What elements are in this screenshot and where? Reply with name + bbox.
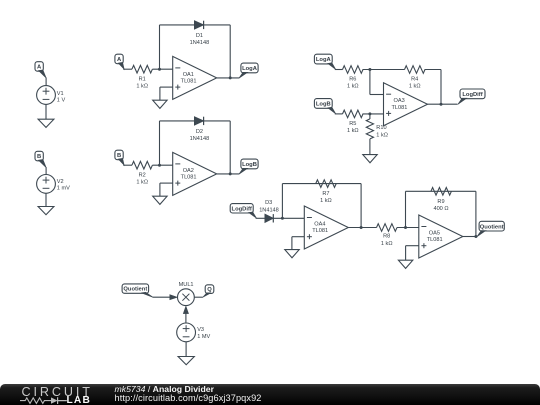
resistor R4 bbox=[405, 66, 426, 74]
svg-text:V2: V2 bbox=[57, 179, 64, 185]
junction bbox=[368, 112, 371, 115]
resistor R1 bbox=[132, 65, 153, 73]
svg-text:R7: R7 bbox=[322, 191, 329, 197]
wire (feedback up) bbox=[159, 121, 161, 165]
resistor R9 bbox=[431, 188, 452, 196]
svg-text:Quotient: Quotient bbox=[123, 287, 147, 293]
resistor R2 bbox=[132, 161, 153, 169]
label MUL1 bbox=[179, 282, 194, 288]
svg-text:OA1: OA1 bbox=[183, 72, 194, 78]
net flag Quotient (input) bbox=[122, 284, 153, 297]
node flag A (source V1) bbox=[35, 62, 46, 78]
svg-text:1 kΩ: 1 kΩ bbox=[347, 84, 359, 90]
svg-text:1 mV: 1 mV bbox=[57, 186, 70, 192]
wire bbox=[152, 68, 172, 70]
voltage source V3 bbox=[177, 323, 196, 342]
wire (feedback top) bbox=[406, 190, 476, 192]
wire (output) bbox=[194, 296, 203, 298]
svg-text:Q: Q bbox=[207, 287, 212, 293]
label D1 bbox=[190, 33, 210, 46]
svg-text:R8: R8 bbox=[383, 234, 390, 240]
voltage source V1 bbox=[37, 86, 56, 105]
svg-text:1 kΩ: 1 kΩ bbox=[320, 198, 332, 204]
svg-text:1 kΩ: 1 kΩ bbox=[136, 179, 148, 185]
wire (+ input) bbox=[160, 183, 173, 196]
svg-text:LogB: LogB bbox=[316, 102, 331, 108]
resistor R10 bbox=[366, 119, 373, 139]
wire (output) bbox=[348, 227, 376, 229]
wire with arrow (X input) bbox=[153, 295, 178, 300]
junction bbox=[440, 103, 443, 106]
wire (feedback up) bbox=[405, 191, 407, 227]
wire bbox=[185, 342, 187, 357]
label V3 value bbox=[197, 327, 210, 340]
svg-text:400 Ω: 400 Ω bbox=[433, 206, 448, 212]
op-amp OA1 bbox=[173, 56, 217, 99]
svg-text:R4: R4 bbox=[411, 77, 418, 83]
svg-text:1 kΩ: 1 kΩ bbox=[376, 133, 388, 139]
wire (- input) bbox=[370, 70, 384, 95]
wire (feedback down) bbox=[475, 191, 477, 236]
label R8 bbox=[381, 234, 393, 248]
svg-text:1 kΩ: 1 kΩ bbox=[381, 241, 393, 247]
svg-text:R2: R2 bbox=[139, 172, 146, 178]
wire bbox=[256, 217, 265, 219]
svg-text:TL081: TL081 bbox=[391, 105, 407, 111]
logo squiggle (resistor + diode) bbox=[19, 396, 71, 405]
svg-text:D1: D1 bbox=[196, 33, 203, 39]
wire (output) bbox=[217, 173, 240, 175]
ground bbox=[398, 260, 412, 268]
junction bbox=[229, 76, 232, 79]
junction bbox=[281, 217, 284, 220]
wire (feedback down) bbox=[229, 25, 231, 78]
op-amp OA4 bbox=[304, 206, 348, 249]
wire bbox=[45, 193, 47, 206]
wire bbox=[45, 167, 47, 174]
svg-text:LogDiff: LogDiff bbox=[232, 206, 252, 212]
wire bbox=[123, 164, 132, 166]
label R6 bbox=[347, 77, 359, 90]
net flag LogB (input) bbox=[314, 99, 335, 114]
svg-text:LogB: LogB bbox=[242, 162, 257, 168]
label R4 bbox=[409, 77, 421, 90]
label R1 bbox=[136, 76, 148, 89]
svg-text:LogA: LogA bbox=[242, 66, 258, 72]
label R7 bbox=[320, 191, 332, 204]
diode D2 bbox=[194, 117, 203, 125]
wire bbox=[425, 70, 442, 105]
ground bbox=[285, 250, 299, 258]
CircuitLab logo text CIRCUIT bbox=[22, 385, 93, 399]
wire bbox=[273, 217, 304, 219]
svg-text:MUL1: MUL1 bbox=[179, 282, 194, 288]
svg-text:V1: V1 bbox=[57, 91, 64, 97]
diode D1 bbox=[194, 21, 203, 29]
wire bbox=[363, 113, 384, 115]
wire (feedback down) bbox=[229, 121, 231, 174]
wire (feedback top) bbox=[282, 183, 361, 185]
svg-text:D2: D2 bbox=[196, 129, 203, 135]
voltage source V2 bbox=[37, 175, 56, 194]
svg-text:1 kΩ: 1 kΩ bbox=[347, 128, 359, 134]
label R2 bbox=[136, 172, 148, 185]
net flag Quotient (output) bbox=[477, 221, 504, 236]
op-amp OA2 bbox=[173, 152, 217, 195]
svg-text:1N4148: 1N4148 bbox=[259, 207, 279, 213]
label D2 bbox=[190, 129, 210, 142]
svg-text:1 kΩ: 1 kΩ bbox=[409, 84, 421, 90]
wire (output) bbox=[217, 77, 240, 79]
node flag Q (output) bbox=[203, 285, 214, 298]
svg-text:1 V: 1 V bbox=[57, 98, 66, 104]
wire (feedback up) bbox=[159, 25, 161, 69]
resistor R8 bbox=[377, 224, 398, 232]
junction bbox=[360, 226, 363, 229]
multiplier MUL1 bbox=[178, 289, 195, 306]
wire (feedback top) bbox=[160, 24, 231, 26]
ground bbox=[38, 207, 54, 215]
node flag B (source V2) bbox=[35, 151, 46, 167]
wire (+ input) bbox=[406, 246, 419, 261]
label D3 bbox=[259, 200, 279, 213]
svg-text:V3: V3 bbox=[197, 327, 204, 333]
wire with arrow (Y input) bbox=[183, 306, 188, 323]
svg-text:LogDiff: LogDiff bbox=[462, 92, 482, 98]
node flag B (input) bbox=[115, 150, 124, 165]
resistor R7 bbox=[316, 180, 337, 188]
svg-text:1N4148: 1N4148 bbox=[190, 136, 210, 142]
svg-text:D3: D3 bbox=[265, 200, 272, 206]
resistor R5 bbox=[343, 110, 364, 118]
wire (output) bbox=[428, 103, 458, 105]
label R10 bbox=[376, 125, 388, 139]
svg-text:R5: R5 bbox=[349, 121, 356, 127]
schematic url bbox=[115, 393, 262, 403]
junction bbox=[158, 68, 161, 71]
svg-text:TL081: TL081 bbox=[181, 175, 197, 181]
svg-text:TL081: TL081 bbox=[312, 228, 328, 234]
wire (+ input) bbox=[292, 237, 304, 250]
junction bbox=[158, 164, 161, 167]
svg-text:Quotient: Quotient bbox=[480, 224, 504, 230]
wire (+ input) bbox=[160, 87, 173, 100]
svg-text:1N4148: 1N4148 bbox=[190, 40, 210, 46]
ground bbox=[38, 119, 54, 127]
wire bbox=[45, 78, 47, 86]
net flag LogA (input) bbox=[314, 54, 335, 69]
diode D3 bbox=[265, 214, 273, 222]
svg-text:R9: R9 bbox=[437, 199, 444, 205]
wire bbox=[152, 164, 172, 166]
svg-text:OA4: OA4 bbox=[314, 222, 325, 228]
junction bbox=[229, 172, 232, 175]
label V2 value bbox=[57, 179, 70, 192]
label R9 bbox=[433, 199, 448, 212]
junction bbox=[368, 68, 371, 71]
junction bbox=[404, 226, 407, 229]
net flag LogDiff (input) bbox=[230, 204, 256, 219]
wire bbox=[397, 227, 419, 229]
wire (feedback top) bbox=[160, 120, 231, 122]
footer bar bbox=[0, 384, 540, 405]
net flag LogA (output) bbox=[239, 63, 258, 78]
wire bbox=[363, 69, 405, 71]
ground bbox=[153, 100, 167, 108]
ground bbox=[178, 357, 194, 365]
wire (feedback up) bbox=[281, 184, 283, 219]
svg-text:OA3: OA3 bbox=[393, 98, 404, 104]
svg-text:B: B bbox=[37, 154, 41, 160]
wire bbox=[123, 68, 132, 70]
wire bbox=[45, 104, 47, 119]
op-amp OA5 bbox=[419, 215, 463, 258]
wire bbox=[369, 114, 371, 119]
svg-text:OA2: OA2 bbox=[183, 168, 194, 174]
net flag LogB (output) bbox=[239, 159, 258, 174]
op-amp OA3 bbox=[384, 83, 428, 126]
schematic title bbox=[115, 384, 214, 394]
ground bbox=[153, 196, 167, 204]
label V1 value bbox=[57, 91, 66, 104]
wire bbox=[335, 69, 343, 71]
wire (output) bbox=[463, 236, 478, 238]
svg-text:1 MV: 1 MV bbox=[197, 334, 210, 340]
svg-text:R6: R6 bbox=[349, 77, 356, 83]
svg-text:R1: R1 bbox=[139, 76, 146, 82]
svg-text:B: B bbox=[117, 153, 121, 159]
junction bbox=[474, 235, 477, 238]
svg-text:OA5: OA5 bbox=[429, 231, 440, 237]
label R5 bbox=[347, 121, 359, 134]
svg-text:TL081: TL081 bbox=[427, 237, 443, 243]
wire bbox=[335, 113, 343, 115]
ground bbox=[363, 155, 377, 163]
svg-text:R10: R10 bbox=[376, 125, 386, 131]
wire (feedback down) bbox=[360, 184, 362, 228]
wire bbox=[369, 139, 371, 155]
svg-text:1 kΩ: 1 kΩ bbox=[136, 83, 148, 89]
svg-text:LogA: LogA bbox=[316, 57, 332, 63]
node flag A (input) bbox=[115, 54, 124, 69]
net flag LogDiff (output) bbox=[458, 89, 485, 104]
svg-text:TL081: TL081 bbox=[181, 79, 197, 85]
resistor R6 bbox=[343, 66, 364, 74]
CircuitLab logo text LAB bbox=[67, 395, 92, 405]
